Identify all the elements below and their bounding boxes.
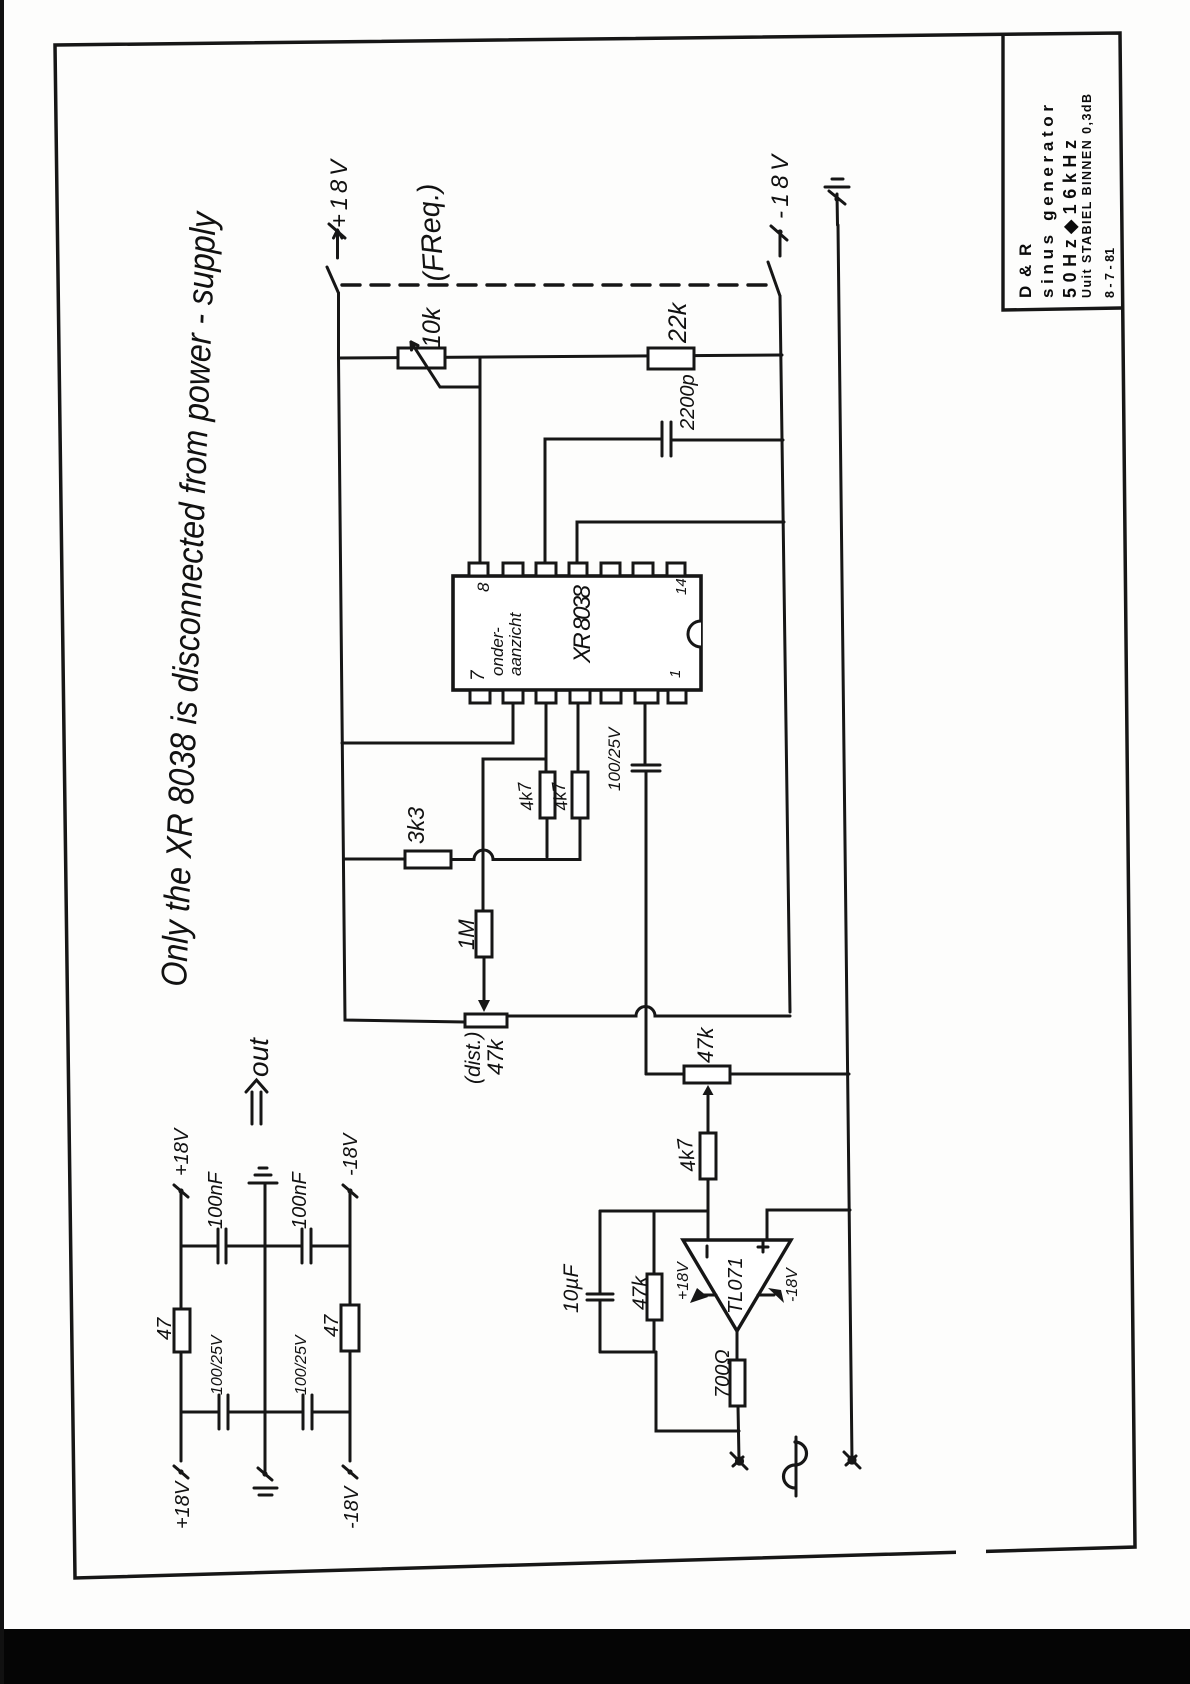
capacitor 100/25V bbox=[632, 765, 660, 1074]
svg-text:47k: 47k bbox=[693, 1027, 718, 1063]
svg-text:aanzicht: aanzicht bbox=[506, 611, 525, 676]
resistor 47 (minus rail) bbox=[341, 1305, 359, 1351]
svg-text:1M: 1M bbox=[454, 919, 479, 950]
svg-text:4k7: 4k7 bbox=[514, 780, 538, 813]
node ground terminal bottom bbox=[844, 1452, 860, 1468]
pin stub bbox=[601, 563, 620, 576]
svg-text:+18V: +18V bbox=[171, 1127, 193, 1176]
capacitor 100nF (bottom) bbox=[302, 1229, 311, 1263]
svg-text:14: 14 bbox=[673, 578, 690, 595]
capacitor 100nF (top) bbox=[218, 1229, 226, 1263]
pin stub bbox=[536, 690, 556, 703]
svg-text:100nF: 100nF bbox=[289, 1171, 311, 1229]
switch S1b bbox=[768, 262, 780, 296]
capacitor 2200p bbox=[662, 422, 783, 456]
wire switch gang dashed link bbox=[342, 283, 768, 286]
svg-text:8 - 7 - 81: 8 - 7 - 81 bbox=[1103, 248, 1117, 298]
svg-text:100/25V: 100/25V bbox=[605, 726, 624, 791]
node +18V ps left terminal bbox=[172, 1466, 194, 1529]
node -18V ps left terminal bbox=[341, 1466, 363, 1529]
pin stub bbox=[635, 690, 658, 703]
svg-text:sinus generator: sinus generator bbox=[1038, 102, 1057, 298]
svg-text:3k3: 3k3 bbox=[403, 807, 429, 844]
svg-text:out: out bbox=[243, 1037, 274, 1077]
pin 7 (left stub) bbox=[470, 690, 490, 703]
pin 14 stub bbox=[667, 563, 685, 576]
pin stub bbox=[503, 563, 523, 576]
capacitor 10uF branch bbox=[587, 1211, 656, 1352]
wire main bias line bbox=[339, 355, 783, 358]
label out with arrow bbox=[243, 1037, 274, 1124]
scan black strip left edge bbox=[0, 0, 4, 1684]
wire pin8 to pot bbox=[479, 358, 482, 563]
svg-text:10µF: 10µF bbox=[560, 1264, 583, 1313]
pin stub bbox=[601, 690, 621, 703]
svg-text:4k7: 4k7 bbox=[673, 1135, 701, 1173]
wire inverting input node bbox=[707, 1210, 710, 1240]
border scan gap bbox=[956, 1542, 986, 1558]
ground chassis right bbox=[249, 1168, 277, 1189]
node +18V ps right terminal bbox=[171, 1127, 193, 1197]
svg-text:+18V: +18V bbox=[326, 158, 353, 228]
wire ground rail bbox=[838, 225, 852, 1460]
svg-text:10k: 10k bbox=[418, 306, 446, 348]
title block box bbox=[1003, 36, 1121, 310]
wiper arrow to 4k7 bbox=[703, 1085, 714, 1133]
wire pin6 to 1M node bbox=[483, 759, 546, 911]
svg-text:4k7: 4k7 bbox=[548, 780, 572, 813]
resistor 700R bbox=[730, 1360, 745, 1460]
IC U1 XR8038 body bbox=[453, 576, 701, 690]
node +18V op-amp supply bbox=[675, 1261, 716, 1303]
svg-text:47: 47 bbox=[321, 1314, 343, 1337]
wire pin7 to +18 rail bbox=[342, 703, 513, 743]
sine output symbol bbox=[784, 1437, 807, 1496]
svg-text:XR 8038: XR 8038 bbox=[569, 584, 596, 664]
wire pin6 branch bbox=[545, 703, 548, 772]
svg-text:(FReq.): (FReq.) bbox=[412, 182, 451, 282]
ALL SCHEMATIC CONTENT IN LANDSCAPE COORDS (1684 wide x 1190 tall) bbox=[153, 94, 1117, 1529]
svg-text:+18V: +18V bbox=[675, 1261, 692, 1300]
potentiometer 47k (dist.) bbox=[465, 1007, 790, 1028]
node -18V ps right terminal bbox=[340, 1132, 362, 1197]
resistor 47 (plus rail) bbox=[174, 1309, 190, 1352]
wire -18V rail bbox=[780, 296, 790, 1012]
label onder-aanzicht bbox=[488, 611, 525, 676]
svg-text:Uuit STABIEL BINNEN 0,3dB: Uuit STABIEL BINNEN 0,3dB bbox=[1080, 94, 1094, 298]
wire pin5(lower) bbox=[577, 703, 580, 772]
pin 8 (top right stub) bbox=[469, 563, 488, 576]
node -18V op-amp supply bbox=[758, 1267, 801, 1303]
capacitor 100/25V (bottom) bbox=[303, 1395, 312, 1429]
wire +18V ps rail bbox=[180, 1190, 183, 1461]
node output terminal bbox=[731, 1453, 747, 1469]
potentiometer 47k (output level) bbox=[646, 1066, 849, 1083]
pin stub bbox=[503, 690, 523, 703]
resistor 4k7 (upper) bbox=[540, 772, 555, 857]
svg-text:100nF: 100nF bbox=[205, 1171, 227, 1229]
node ground terminal top bbox=[825, 179, 849, 225]
pin stub bbox=[570, 690, 590, 703]
resistor 22k bbox=[648, 348, 694, 369]
wire non-inverting input bbox=[767, 1210, 850, 1240]
wire feedback to output bbox=[656, 1352, 739, 1431]
svg-text:-18V: -18V bbox=[341, 1485, 363, 1529]
ground chassis left bbox=[254, 1468, 277, 1495]
svg-text:47: 47 bbox=[154, 1317, 176, 1340]
wire pin9 (electrolytic branch) bbox=[644, 703, 647, 765]
pin 1 stub bbox=[668, 690, 686, 703]
svg-text:47k: 47k bbox=[629, 1275, 652, 1310]
svg-text:D & R: D & R bbox=[1016, 242, 1035, 298]
wire pin4 to -18V rail bbox=[577, 522, 784, 563]
op-amp U2 TL071 bbox=[683, 1240, 791, 1331]
node +18V terminal bbox=[326, 158, 353, 258]
wire 100uF bus bbox=[181, 1411, 350, 1414]
capacitor 100/25V (top) bbox=[219, 1395, 228, 1429]
resistor 1M bbox=[476, 911, 492, 1012]
svg-text:onder-: onder- bbox=[488, 627, 507, 676]
wire +18V rail bbox=[339, 293, 466, 1022]
resistor 4k7 (op-amp input) bbox=[700, 1133, 716, 1210]
resistor 4k7 (lower) bbox=[572, 772, 588, 857]
svg-text:7: 7 bbox=[468, 669, 489, 681]
svg-text:8: 8 bbox=[474, 582, 493, 592]
svg-text:100/25V: 100/25V bbox=[209, 1334, 226, 1395]
node -18V terminal bbox=[767, 153, 794, 256]
svg-text:47k: 47k bbox=[483, 1039, 508, 1075]
svg-text:-18V: -18V bbox=[784, 1267, 801, 1302]
svg-text:TL071: TL071 bbox=[725, 1257, 747, 1314]
svg-text:-18V: -18V bbox=[340, 1132, 362, 1176]
svg-text:+18V: +18V bbox=[172, 1480, 194, 1529]
wire feedback riser bbox=[600, 1210, 708, 1213]
resistor 47k feedback bbox=[647, 1213, 662, 1352]
wire 0V ps rail bbox=[264, 1189, 267, 1474]
svg-text:2200p: 2200p bbox=[677, 374, 699, 431]
pin stub bbox=[633, 563, 653, 576]
wire pin5 up to cap bbox=[545, 439, 662, 563]
scan black band bottom bbox=[0, 1629, 1190, 1684]
wire op-amp output bbox=[736, 1331, 739, 1360]
resistor 3k3 bbox=[344, 850, 581, 868]
svg-text:100/25V: 100/25V bbox=[293, 1334, 310, 1395]
wire 100nF bus bbox=[181, 1245, 350, 1248]
svg-text:700Ω: 700Ω bbox=[712, 1349, 734, 1398]
pin stub bbox=[569, 563, 587, 576]
svg-text:22k: 22k bbox=[664, 301, 692, 344]
svg-text:(dist.): (dist.) bbox=[462, 1032, 485, 1085]
title block: D&R sinus generator bbox=[1016, 94, 1117, 298]
switch S1a bbox=[327, 267, 339, 293]
svg-text:1: 1 bbox=[667, 670, 684, 678]
wire -18V ps rail bbox=[349, 1191, 352, 1461]
potentiometer 10k bbox=[398, 342, 480, 387]
pin stub bbox=[536, 563, 556, 576]
